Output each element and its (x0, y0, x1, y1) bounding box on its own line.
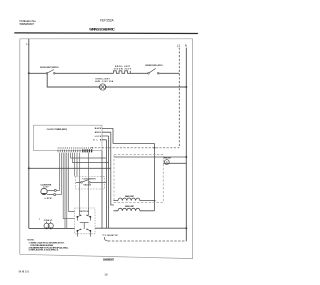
schematic frame (20, 39, 193, 259)
node junction L1 top bus (28, 72, 30, 74)
svg-text:BAKE: BAKE (95, 127, 102, 130)
svg-text:BROIL: BROIL (95, 132, 102, 134)
motor oven lock left (41, 188, 57, 195)
wire bake feed 143.5 (113, 143, 155, 145)
wire N branch 157 (114, 156, 186, 158)
svg-text:*: * (39, 218, 40, 222)
svg-text:DLB: DLB (93, 140, 102, 142)
wire vertical 109.5 (108, 136, 110, 228)
wire L2 rail (178, 48, 180, 148)
svg-text:6 RPM: 6 RPM (45, 198, 52, 200)
svg-text:OVEN LT.: OVEN LT. (44, 220, 53, 222)
resistor broil unit lower (113, 208, 154, 210)
node junction N 157 (185, 156, 187, 158)
svg-text:5995280307: 5995280307 (20, 22, 35, 26)
svg-text:16: 16 (104, 272, 108, 276)
wire vertical 102 (101, 151, 103, 229)
wire N rail (185, 48, 187, 242)
svg-text:N: N (185, 44, 187, 48)
svg-text:OVEN DOOR LATCH: OVEN DOOR LATCH (145, 64, 163, 67)
wire L1 bottom to receptacle (29, 227, 75, 229)
svg-text:WIRING SCHEMATIC: WIRING SCHEMATIC (89, 27, 115, 31)
svg-text:L1: L1 (26, 42, 30, 46)
svg-text:*TO MAINTOP: *TO MAINTOP (102, 234, 118, 237)
interlock contacts (77, 215, 90, 236)
svg-text:CLOCK / TIMER (ERC): CLOCK / TIMER (ERC) (47, 129, 68, 131)
connector terminal comb (58, 149, 92, 152)
node junction 154.5 dashed (154, 147, 156, 149)
switch door light switch (46, 70, 55, 75)
switch oven door latch (148, 68, 159, 74)
svg-text:BROIL UNIT: BROIL UNIT (125, 206, 135, 208)
svg-text:3000W 240V: 3000W 240V (114, 67, 132, 70)
wire dashed 148.3 (91, 147, 179, 149)
resistor broil unit (114, 71, 131, 74)
motor door lock (163, 160, 186, 165)
wire branch 162.6 (72, 162, 108, 164)
svg-text:L2: L2 (177, 44, 181, 48)
comb drop wires (56, 153, 89, 229)
resistor bake unit (113, 198, 154, 200)
wire vertical 107.4 (105, 140, 107, 228)
wire oven light drop (47, 74, 186, 87)
label terminal numbers (58, 146, 93, 148)
clock timer ERC box (34, 125, 103, 150)
svg-text:MM50: MM50 (19, 270, 30, 274)
node junction L1 168 (28, 167, 30, 169)
wire vertical 111.6 to coil2 (111, 132, 114, 205)
svg-text:LOCK SWITCH: LOCK SWITCH (83, 179, 97, 181)
bake broil unit box (114, 154, 163, 202)
wire vertical 113.3 (112, 128, 114, 143)
wire dashed to N bottom (108, 240, 186, 242)
svg-text:DR MOTOR: DR MOTOR (163, 158, 172, 160)
wire interlock internal (80, 208, 89, 215)
node junction N bottom (185, 227, 187, 229)
svg-text:UNLOCK: UNLOCK (84, 184, 92, 186)
wire L1 branch 168.3 (29, 167, 111, 169)
svg-text:DOOR LIGHT SWITCH: DOOR LIGHT SWITCH (40, 67, 59, 69)
wire arrow hook (105, 237, 108, 241)
title rule (14, 32, 198, 35)
svg-text:40W -120V 25A: 40W -120V 25A (95, 80, 114, 83)
wire top bus (29, 72, 180, 74)
switch door lock (76, 180, 107, 184)
wire L1 rail (28, 39, 30, 229)
wire ERC right exits (102, 128, 113, 139)
svg-text:LOCK: LOCK (95, 136, 102, 138)
svg-text:FEF352A: FEF352A (100, 18, 115, 22)
svg-text:SWITCH: SWITCH (79, 211, 89, 213)
svg-text:120V: 120V (43, 187, 49, 189)
svg-text:3. REPLACE RE. S-76.25 SPEC A.: 3. REPLACE RE. S-76.25 SPEC A. (29, 249, 59, 252)
svg-text:5995280307: 5995280307 (103, 258, 115, 262)
lamp oven light (100, 84, 106, 90)
interlock dashed box (75, 208, 96, 234)
receptacle oven light socket (44, 222, 53, 229)
node junction oven light N (185, 86, 187, 88)
svg-text:BAKE UNIT: BAKE UNIT (125, 195, 135, 198)
wire vertical 154.5 (154, 144, 156, 211)
node junction 154.5 coil1 (154, 200, 156, 202)
latch switch dashed box (76, 176, 105, 189)
wire branch 158 (71, 157, 107, 159)
wire bottom right to N (95, 227, 186, 229)
